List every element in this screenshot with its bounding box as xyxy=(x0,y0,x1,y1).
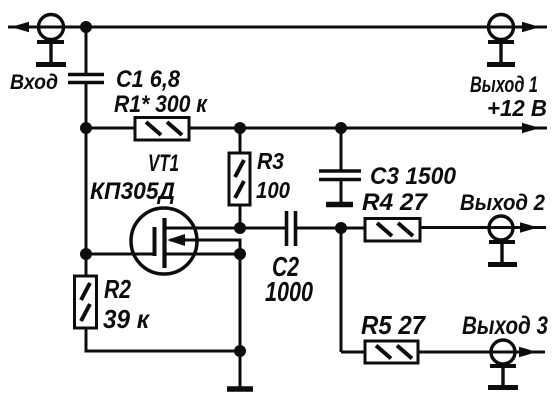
svg-text:1000: 1000 xyxy=(265,276,313,307)
wire: gate lead xyxy=(86,253,154,256)
wire: R5 to output 3 xyxy=(418,351,545,354)
resistor R1 xyxy=(135,118,189,141)
svg-text:Выход 3: Выход 3 xyxy=(462,312,548,340)
wire: +12V rail (R1 right to arrow) xyxy=(189,127,547,130)
wire: substrate lead xyxy=(170,240,240,252)
resistor R4 xyxy=(365,219,420,242)
transistor VT1 (КП305Д) xyxy=(131,208,197,274)
wire: C3 bottom lead xyxy=(340,181,343,202)
wire: source down to ground rail xyxy=(239,254,242,351)
svg-text:R2: R2 xyxy=(104,274,131,304)
node: C3 top junction xyxy=(335,122,347,134)
node: ground junction xyxy=(234,345,246,357)
node: R4/R5 junction xyxy=(335,222,347,234)
wire: top rail to C1 xyxy=(85,27,88,73)
svg-text:С1 6,8: С1 6,8 xyxy=(116,66,181,93)
resistor R2 xyxy=(75,276,97,328)
svg-text:Выход 2: Выход 2 xyxy=(460,190,546,215)
svg-text:С3 1500: С3 1500 xyxy=(370,163,457,190)
wire: C2 to R4 xyxy=(297,227,366,230)
ground: main chassis xyxy=(227,351,253,389)
terminal: Выход 2 connector xyxy=(488,216,517,265)
arrow: output 3 end xyxy=(519,347,537,357)
node: top rail / C1 junction xyxy=(80,21,92,33)
arrow: +12V rail right end xyxy=(522,123,540,133)
wire: source lead xyxy=(166,253,240,256)
svg-text:Вход: Вход xyxy=(10,71,58,94)
svg-text:VT1: VT1 xyxy=(148,150,179,177)
svg-text:R3: R3 xyxy=(257,148,284,174)
terminal: Вход connector X1 xyxy=(36,15,66,65)
node: R3 top junction xyxy=(234,122,246,134)
arrow: top rail left end xyxy=(11,22,29,32)
svg-text:Выход 1: Выход 1 xyxy=(470,72,538,97)
svg-text:R4 27: R4 27 xyxy=(362,189,429,216)
resistor R5 xyxy=(365,341,418,363)
wire: drain lead to C2 xyxy=(166,227,286,230)
capacitor C1 xyxy=(68,75,104,83)
capacitor C2 xyxy=(287,211,296,246)
terminal: Выход 3 connector xyxy=(488,340,518,388)
wire: R3 bottom lead xyxy=(239,205,242,230)
wire: R5 left lead xyxy=(341,351,366,354)
node: R1 left / bias junction xyxy=(80,122,92,134)
node: gate junction xyxy=(80,248,92,260)
terminal: Выход 1 connector xyxy=(487,15,515,65)
wire: top loop-through rail xyxy=(8,26,547,29)
arrow: output 2 end xyxy=(520,222,538,232)
svg-text:КП305Д: КП305Д xyxy=(90,178,175,205)
wire: C1 to gate node xyxy=(85,84,88,256)
svg-text:R5 27: R5 27 xyxy=(361,310,426,340)
resistor R3 xyxy=(229,153,250,205)
wire: R2 top lead xyxy=(85,254,88,277)
arrow: substrate arrowhead xyxy=(167,234,185,246)
arrow: top rail right end xyxy=(522,22,540,32)
wire: bias node to R1 xyxy=(86,127,136,130)
node: drain junction xyxy=(234,222,246,234)
wire: R3 top lead xyxy=(239,128,242,154)
svg-text:R1* 300 к: R1* 300 к xyxy=(114,91,209,118)
capacitor C3 xyxy=(319,171,361,180)
wire: R2 bottom lead xyxy=(85,328,88,351)
node: source junction xyxy=(234,248,246,260)
wire: C3 top lead xyxy=(340,128,343,170)
wire: R4 to output 2 xyxy=(420,226,546,229)
svg-text:39 к: 39 к xyxy=(103,304,151,334)
ground: C3 chassis bar xyxy=(326,202,353,208)
wire: ground rail xyxy=(86,349,240,351)
svg-text:100: 100 xyxy=(256,177,290,203)
svg-text:+12 В: +12 В xyxy=(487,95,547,121)
wire: junction down to R5 xyxy=(340,228,343,352)
